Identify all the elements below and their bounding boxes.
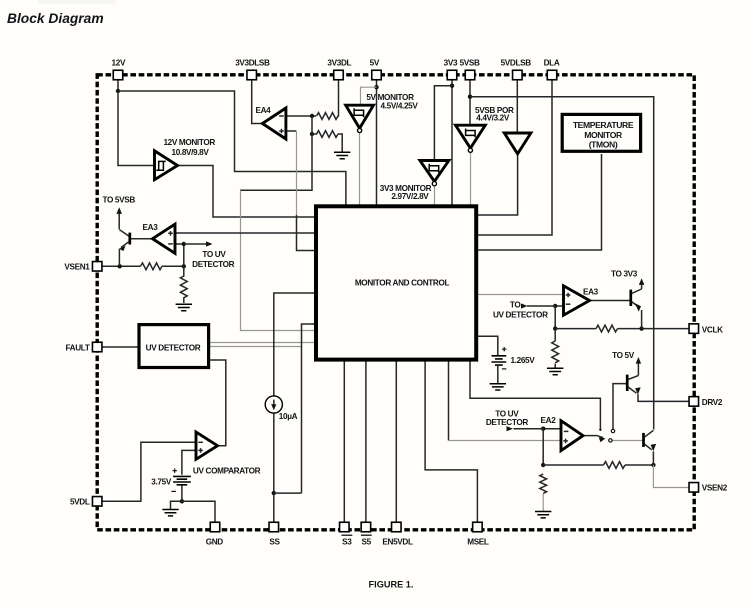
wire 3.75V to ground node	[181, 485, 183, 502]
svg-text:EA3: EA3	[143, 223, 159, 232]
wire Q3 base grey	[612, 440, 643, 442]
wire EA2 plus input grey	[449, 440, 562, 442]
svg-text:3.75V: 3.75V	[151, 478, 172, 487]
svg-text:3V3DLSB: 3V3DLSB	[235, 59, 270, 68]
ground VSEN1 divider	[176, 304, 192, 310]
pin EN5VDL	[392, 522, 402, 532]
node EA4 minus junction lower	[310, 132, 314, 136]
wire to ground EA3R	[554, 364, 556, 368]
svg-text:DRV2: DRV2	[702, 398, 723, 407]
wire VSEN1 divider lower resistor	[180, 266, 187, 303]
wire 3V3DLSB pin to EA4 output	[252, 80, 262, 124]
wire 5VDLSB pin to buffer input	[516, 80, 518, 134]
wire GND node to GND pin	[182, 501, 215, 522]
transistor Q2 to 5V	[626, 375, 629, 391]
wire 3V3 pin down to box top	[451, 80, 453, 206]
wire 12V monitor output to box left	[178, 166, 316, 218]
wire switch contact A from box bottom	[470, 360, 600, 430]
wire arrow to UV detector (right)	[527, 305, 555, 307]
node VSEN1 left junction	[118, 264, 122, 268]
wire switch lever arrow	[597, 436, 603, 438]
resistor R-VCLK	[596, 325, 618, 332]
svg-text:4.5V/4.25V: 4.5V/4.25V	[380, 101, 418, 110]
svg-text:S5: S5	[362, 537, 372, 546]
svg-text:TEMPERATURE: TEMPERATURE	[573, 120, 634, 130]
IC boundary dashed border	[97, 75, 694, 530]
wire VSEN2 node to pin	[653, 465, 689, 488]
wire 5V pin down to box top	[376, 80, 378, 206]
svg-text:MSEL: MSEL	[467, 537, 489, 546]
pin VSEN2	[689, 483, 699, 493]
svg-text:1.265V: 1.265V	[511, 356, 536, 365]
pin FAULT	[92, 342, 102, 352]
svg-text:TO 3V3: TO 3V3	[611, 269, 638, 278]
wire VSEN1 node to EA3 left minus	[175, 244, 184, 266]
svg-text:S3: S3	[342, 537, 352, 546]
wire UV detector to comparator output	[209, 360, 226, 446]
wire 5VSB POR output to box top	[470, 152, 472, 205]
wire EA3 left output to Q4 base	[131, 238, 153, 240]
svg-text:VSEN1: VSEN1	[64, 262, 90, 271]
pin VCLK	[689, 324, 699, 334]
wire 5V monitor output to box top	[359, 133, 361, 206]
wire 12V rail to monitor-and-control top	[118, 91, 346, 205]
svg-text:MONITOR AND CONTROL: MONITOR AND CONTROL	[355, 279, 450, 288]
svg-text:EA4: EA4	[255, 106, 271, 115]
wire 12V pin to junction	[117, 80, 119, 92]
ground below 1.265V	[490, 384, 506, 390]
node VSEN2 emitter junction	[651, 463, 655, 467]
wire 5VSB rail to right column	[470, 97, 654, 430]
node EA4 minus junction upper	[310, 114, 314, 118]
svg-text:UV DETECTOR: UV DETECTOR	[493, 311, 548, 320]
node EA2 divider junction	[541, 463, 545, 467]
wire S5 from box bottom	[365, 360, 367, 523]
svg-text:5VDL: 5VDL	[70, 497, 90, 506]
resistor R-VSEN1	[141, 263, 163, 270]
ground EA4 divider	[334, 152, 350, 158]
reference 1.265V battery	[502, 347, 506, 351]
svg-text:TO 5VSB: TO 5VSB	[102, 195, 135, 204]
svg-text:TO: TO	[510, 301, 522, 310]
node 12V junction	[116, 89, 120, 93]
wire Q2 emitter to DRV2 pin	[638, 394, 689, 401]
wire comparator plus to 3.75V	[182, 450, 196, 474]
svg-text:DETECTOR: DETECTOR	[486, 418, 529, 427]
pin 12V	[113, 70, 123, 80]
wire box right to 1.265V reference	[477, 336, 498, 355]
reference 3.75V battery	[173, 469, 177, 473]
wire EA4 plus grey drop	[296, 131, 298, 215]
wire 3V3 monitor output to box top	[434, 186, 436, 205]
node GND junction	[180, 499, 184, 503]
wire EA2 output to switch pole	[583, 435, 597, 437]
svg-text:UV COMPARATOR: UV COMPARATOR	[193, 466, 261, 475]
wire EA2 minus input	[543, 428, 561, 430]
pin S3-bar	[340, 522, 350, 532]
comparator UV COMPARATOR	[196, 432, 218, 459]
DLA buffer triangle	[504, 133, 531, 154]
wire Q1 collector TO 3V3 arrow	[641, 285, 643, 290]
svg-text:DETECTOR: DETECTOR	[192, 260, 235, 269]
wire 5VSB pin to POR input	[469, 80, 471, 126]
wire EA4 minus node down and across to box	[240, 116, 312, 190]
wire arrow to UV detector (EA2)	[514, 428, 544, 430]
12V monitor comparator	[155, 151, 178, 180]
wire EA2 plus from box bottom	[448, 360, 450, 441]
node EA3 right minus junction	[553, 304, 557, 308]
wire EA2 divider to ground grey	[542, 494, 544, 512]
wire 3V3 branch to 3V3 monitor input	[434, 86, 452, 161]
svg-text:SS: SS	[269, 537, 280, 546]
svg-text:12V MONITOR: 12V MONITOR	[163, 138, 215, 147]
transistor Q4 to 5VSB	[128, 233, 131, 245]
5V monitor comparator	[346, 105, 374, 128]
pin S5-bar	[361, 522, 371, 532]
scan artifact top edge	[38, 0, 116, 4]
switch contact to VSEN2 base	[609, 439, 612, 442]
wire EA2 feedback drop	[542, 429, 544, 465]
pin 5VDL	[92, 497, 102, 507]
wire EA4 lower resistor to ground	[338, 134, 342, 152]
wire EA2 divider lower resistor	[540, 474, 547, 493]
ground EA2 divider	[535, 512, 551, 518]
pin VSEN1	[92, 262, 102, 272]
transistor Q3 VSEN2	[642, 433, 645, 447]
transistor Q1 to 3V3	[629, 290, 632, 306]
ground EA3 right divider	[547, 368, 563, 374]
pin 3V3DL	[334, 70, 344, 80]
op-amp EA2	[561, 421, 583, 451]
svg-text:5VDLSB: 5VDLSB	[501, 59, 532, 68]
svg-text:TO 5V: TO 5V	[612, 351, 635, 360]
monitor and control block U0	[316, 206, 476, 359]
wire EA4 plus input	[286, 130, 297, 132]
wire SS node link	[274, 493, 302, 522]
wire box left to SS column	[302, 324, 316, 493]
pin MSEL	[473, 522, 483, 532]
op-amp EA3 (right)	[564, 286, 590, 315]
svg-text:5VSB: 5VSB	[460, 59, 480, 68]
op-amp EA3 (left)	[153, 224, 176, 253]
wire UV detector lower grey to SS column	[209, 346, 302, 348]
svg-text:12V: 12V	[112, 59, 126, 68]
pin 5V	[372, 70, 382, 80]
svg-text:3V3: 3V3	[444, 59, 458, 68]
wire EA4 minus input to node	[286, 115, 316, 117]
switch contact to DRV2 base	[611, 429, 614, 432]
svg-text:5V: 5V	[370, 59, 380, 68]
wire EA3 right divider lower resistor	[554, 329, 556, 341]
svg-text:DLA: DLA	[544, 59, 560, 68]
wire MSEL from box bottom	[425, 360, 477, 523]
svg-text:2.97V/2.8V: 2.97V/2.8V	[391, 192, 429, 201]
wire 5V branch to 5V monitor input	[361, 87, 377, 105]
wire box right to EA3 plus input (right)	[477, 294, 564, 296]
svg-text:EA3: EA3	[583, 288, 599, 297]
wire GND node to left ground	[171, 501, 182, 509]
node SS junction	[272, 491, 276, 495]
op-amp EA4	[262, 108, 286, 139]
svg-text:VCLK: VCLK	[702, 325, 723, 334]
svg-text:FAULT: FAULT	[65, 343, 89, 352]
current source 10uA	[265, 396, 282, 413]
node EA3 left minus junction	[182, 242, 186, 246]
svg-text:EN5VDL: EN5VDL	[382, 537, 413, 546]
svg-text:3V3DL: 3V3DL	[327, 59, 351, 68]
wire VSEN1 pin to divider	[102, 265, 184, 267]
wire EA3 right minus to node	[555, 305, 563, 307]
3V3 monitor comparator	[420, 161, 449, 182]
wire Q4 emitter to VSEN1 node	[118, 249, 120, 267]
node 3V3 junction	[450, 84, 454, 88]
wire EA3 right output to Q1 base	[590, 300, 631, 302]
wire EA3 left plus to box	[175, 232, 315, 234]
wire arrow to UV detector (left)	[184, 243, 211, 245]
wire UV detector upper grey to box	[209, 342, 315, 344]
svg-text:MONITOR: MONITOR	[584, 130, 623, 140]
svg-text:4.4V/3.2V: 4.4V/3.2V	[476, 113, 510, 122]
svg-text:TO UV: TO UV	[202, 250, 226, 259]
wire 5VDLSB buffer output to box right	[477, 154, 518, 215]
svg-text:GND: GND	[206, 537, 224, 546]
wire TMON output to box right	[477, 154, 602, 250]
wire 5VDL pin to comparator minus	[102, 442, 196, 501]
wire box left to 10uA column	[274, 293, 315, 396]
wire 10uA to SS node	[273, 413, 275, 493]
wire Q2 collector TO 5V arrow	[637, 364, 639, 376]
resistor R-EA4-lower	[312, 131, 338, 138]
pin DLA	[547, 70, 557, 80]
5VSB POR comparator	[456, 125, 486, 148]
pin 3V3	[447, 70, 457, 80]
svg-text:EA2: EA2	[541, 416, 557, 425]
wire EA4 minus node grey drop to box left	[241, 190, 316, 330]
resistor R-EA4-upper	[317, 113, 339, 120]
wire S3 from box bottom	[343, 360, 345, 523]
pin DRV2	[689, 397, 699, 407]
wire Q4 collector TO 5VSB arrow	[118, 214, 120, 230]
node EA2 minus junction	[541, 427, 545, 431]
wire EN5VDL from box bottom	[395, 360, 397, 523]
wire DLA pin to box right	[477, 80, 552, 236]
pin SS	[269, 522, 279, 532]
node VCLK transistor junction	[639, 326, 643, 330]
svg-text:VSEN2: VSEN2	[702, 484, 728, 493]
node 5V junction	[374, 85, 378, 89]
node 5VSB junction	[468, 95, 472, 99]
node VCLK divider junction	[553, 326, 557, 330]
wire Q1 emitter to VCLK node	[641, 310, 643, 329]
wire Q3 emitter to divider node	[652, 451, 654, 465]
pin 5VSB	[465, 70, 475, 80]
wire VCLK feedback resistor run	[555, 328, 689, 330]
wire 12V to 12V monitor input	[118, 91, 154, 166]
pin 5VDLSB	[513, 70, 523, 80]
temperature monitor block TMON	[562, 114, 640, 151]
node VSEN1 right junction	[182, 264, 186, 268]
resistor R-VSEN2	[604, 462, 626, 469]
svg-text:10µA: 10µA	[279, 412, 298, 421]
svg-text:UV DETECTOR: UV DETECTOR	[146, 344, 201, 353]
wire EA2 divider resistor run	[543, 464, 653, 466]
wire 3V3DL pin down to feedback resistor	[338, 80, 339, 117]
svg-text:(TMON): (TMON)	[589, 140, 618, 150]
ground below 3.75V	[162, 510, 178, 516]
UV detector block	[139, 325, 209, 368]
svg-text:Block Diagram: Block Diagram	[7, 11, 104, 26]
svg-text:10.8V/9.8V: 10.8V/9.8V	[171, 148, 209, 157]
pin GND	[210, 522, 220, 532]
pin 3V3DLSB	[247, 70, 257, 80]
resistor R-EA3R-lower	[552, 341, 559, 363]
wire EA4 plus drop lower to box left	[297, 215, 316, 251]
wire DRV2 base column	[613, 384, 627, 430]
wire FAULT pin to UV detector	[102, 346, 139, 348]
wire EA3 right feedback node drop	[554, 306, 556, 329]
svg-text:FIGURE 1.: FIGURE 1.	[369, 580, 414, 590]
